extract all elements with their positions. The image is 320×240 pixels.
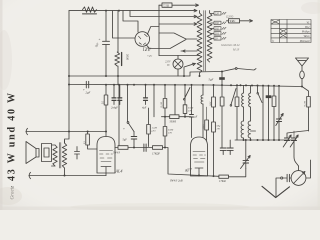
svg-text:AL4: AL4 xyxy=(115,169,123,174)
capacitor 5uF xyxy=(221,72,223,78)
wire tap selector top xyxy=(159,4,198,6)
resistor 1,5M xyxy=(145,110,147,125)
resistor 0,1M right xyxy=(302,87,309,97)
fuse to mains xyxy=(227,20,252,22)
output tube AL4 xyxy=(97,137,115,174)
wiper arrow xyxy=(184,64,194,76)
switch long xyxy=(231,89,236,105)
node top bus 2 xyxy=(118,10,120,12)
potentiometer xyxy=(291,171,306,186)
transformer primary winding xyxy=(197,13,202,73)
svg-text:5μF: 5μF xyxy=(209,77,214,81)
svg-text:Philips: Philips xyxy=(301,31,310,34)
svg-text:B12: B12 xyxy=(305,26,310,29)
svg-text:0,1M: 0,1M xyxy=(304,100,307,106)
svg-text:17KΩ: 17KΩ xyxy=(219,180,226,183)
svg-text:43 W und 40 W: 43 W und 40 W xyxy=(7,93,18,181)
choke coil 5000 xyxy=(117,11,119,52)
wire tap 150V xyxy=(159,23,196,25)
resistor 0,5M xyxy=(163,127,167,137)
wire tap 110V xyxy=(130,11,196,17)
svg-text:220: 220 xyxy=(215,13,220,16)
svg-text:6V: 6V xyxy=(167,64,170,67)
output transformer core xyxy=(59,143,61,169)
antenna xyxy=(296,58,309,66)
fixed capacitor small xyxy=(268,86,270,96)
grid capacitor tube2 xyxy=(191,85,193,114)
resistor 17K bottom xyxy=(219,175,229,178)
speaker cone xyxy=(26,142,36,164)
resistor 0,1 xyxy=(105,85,107,95)
output transformer winding 2 xyxy=(62,143,66,168)
pickup wire xyxy=(276,178,287,197)
svg-text:0,1M: 0,1M xyxy=(160,101,163,107)
wire grid line xyxy=(115,147,165,149)
capacitor 1uF xyxy=(105,11,107,41)
svg-text:5000: 5000 xyxy=(202,124,205,130)
svg-text:2μF: 2μF xyxy=(86,91,91,95)
svg-text:5000: 5000 xyxy=(126,54,130,61)
svg-text:SW4/3 2uB: SW4/3 2uB xyxy=(170,180,183,183)
svg-text:202: 202 xyxy=(215,28,220,31)
svg-text:+: + xyxy=(123,127,125,131)
resistor 50000 horizontal xyxy=(162,116,170,118)
voltage selector fork xyxy=(159,33,197,39)
paper smudges xyxy=(0,187,22,205)
svg-text:Miniwatt: Miniwatt xyxy=(299,40,310,43)
wire main bus xyxy=(69,85,302,87)
resistor 7.5ohm box xyxy=(162,3,172,7)
resistor 7.5k zigzag xyxy=(83,7,97,12)
resistor 5000 vertical xyxy=(206,107,208,120)
svg-text:5W4/3: 5W4/3 xyxy=(113,152,121,155)
wire AZ1 cathode to selector xyxy=(147,27,159,35)
transformer core xyxy=(204,11,206,72)
wire to rectifier anode xyxy=(113,11,136,38)
wire 2V line xyxy=(159,55,200,57)
wire anode column 203 xyxy=(202,85,204,95)
svg-text:4μF: 4μF xyxy=(142,107,147,110)
capacitor 4uF xyxy=(145,85,147,98)
tap label 202 xyxy=(211,22,214,24)
trimmer capacitor xyxy=(278,86,280,119)
wire selector vertical xyxy=(158,5,160,55)
svg-text:1Ω2: 1Ω2 xyxy=(209,101,212,106)
wire AZ1 anode lower xyxy=(146,45,159,49)
svg-text:f t: f t xyxy=(272,40,274,43)
trimmer capacitor detector xyxy=(245,140,247,160)
IF coil stack B xyxy=(250,86,252,94)
wire to bottom line xyxy=(165,148,219,177)
switch right xyxy=(257,86,259,93)
output transformer winding 1 xyxy=(53,145,57,166)
wire cathode bottom xyxy=(105,173,107,176)
svg-text:Gleichstr. M 22: Gleichstr. M 22 xyxy=(221,43,240,47)
svg-text:+: + xyxy=(99,38,101,42)
tap label 20 xyxy=(211,38,214,40)
resistor 0,1M xyxy=(164,85,166,99)
resistor 0,1 grid stopper xyxy=(87,132,89,135)
rectifier tube AZ1 xyxy=(135,32,152,52)
wire long column xyxy=(127,85,129,122)
wire top bus xyxy=(69,10,196,12)
electrolytic 2x4uF xyxy=(114,85,120,98)
resistor box 274 xyxy=(273,86,275,96)
svg-text:2x4μF: 2x4μF xyxy=(111,107,118,110)
wire column 237 xyxy=(236,85,238,97)
tap label 220 xyxy=(211,13,214,15)
resistor SW box xyxy=(118,146,128,150)
capacitor 2uF xyxy=(86,81,88,88)
dial lamp xyxy=(173,59,183,69)
svg-text:(220V): (220V) xyxy=(226,16,233,19)
contact circle xyxy=(281,177,283,179)
speaker driver xyxy=(42,144,52,162)
svg-text:+2V: +2V xyxy=(147,55,152,58)
variable capacitor pair xyxy=(287,131,309,138)
wire column 263 xyxy=(262,86,264,140)
svg-text:5μF: 5μF xyxy=(123,139,128,142)
svg-text:17KΩF: 17KΩF xyxy=(152,153,160,156)
svg-text:202: 202 xyxy=(215,22,220,25)
svg-text:201: 201 xyxy=(215,33,220,36)
capacitor coupling xyxy=(144,144,146,151)
wire left rail xyxy=(65,11,70,143)
tap label 202 xyxy=(211,28,214,30)
capacitor pot input xyxy=(287,174,289,181)
mains switch xyxy=(221,71,223,73)
wire bus right y140 xyxy=(235,139,296,141)
switch W-B xyxy=(127,122,129,124)
resistor 0,1M 570 xyxy=(184,85,186,105)
paper edge marks xyxy=(0,0,3,210)
svg-text:50000: 50000 xyxy=(170,120,177,123)
svg-text:0,1: 0,1 xyxy=(83,141,86,144)
wire column 175 xyxy=(174,85,176,115)
svg-text:M 13: M 13 xyxy=(232,48,240,52)
wire to rectifier top xyxy=(123,11,138,32)
capacitor speaker xyxy=(75,147,80,160)
svg-text:μF: μF xyxy=(195,116,198,119)
resistor box right xyxy=(153,146,163,150)
wire grid line left xyxy=(26,131,106,133)
capacitor 5u xyxy=(133,132,135,137)
wire column 154 xyxy=(153,85,155,117)
switch below bus xyxy=(185,88,191,99)
svg-text:Valvo: Valvo xyxy=(304,35,311,38)
transformer secondary winding xyxy=(207,13,212,62)
resistor 1W2 column xyxy=(213,85,215,97)
svg-text:WRG: WRG xyxy=(230,20,236,23)
IF coil stack A xyxy=(243,85,245,93)
wire column xyxy=(118,85,120,148)
wire bottom line xyxy=(198,174,200,176)
wire bus y76 xyxy=(69,72,222,77)
tube table xyxy=(271,20,311,43)
decoupling caps to chassis xyxy=(221,85,223,97)
tube AF7 xyxy=(191,137,208,176)
dial pointer V xyxy=(262,186,290,197)
tap label 201 xyxy=(211,33,214,35)
node top bus 1 xyxy=(105,10,107,12)
